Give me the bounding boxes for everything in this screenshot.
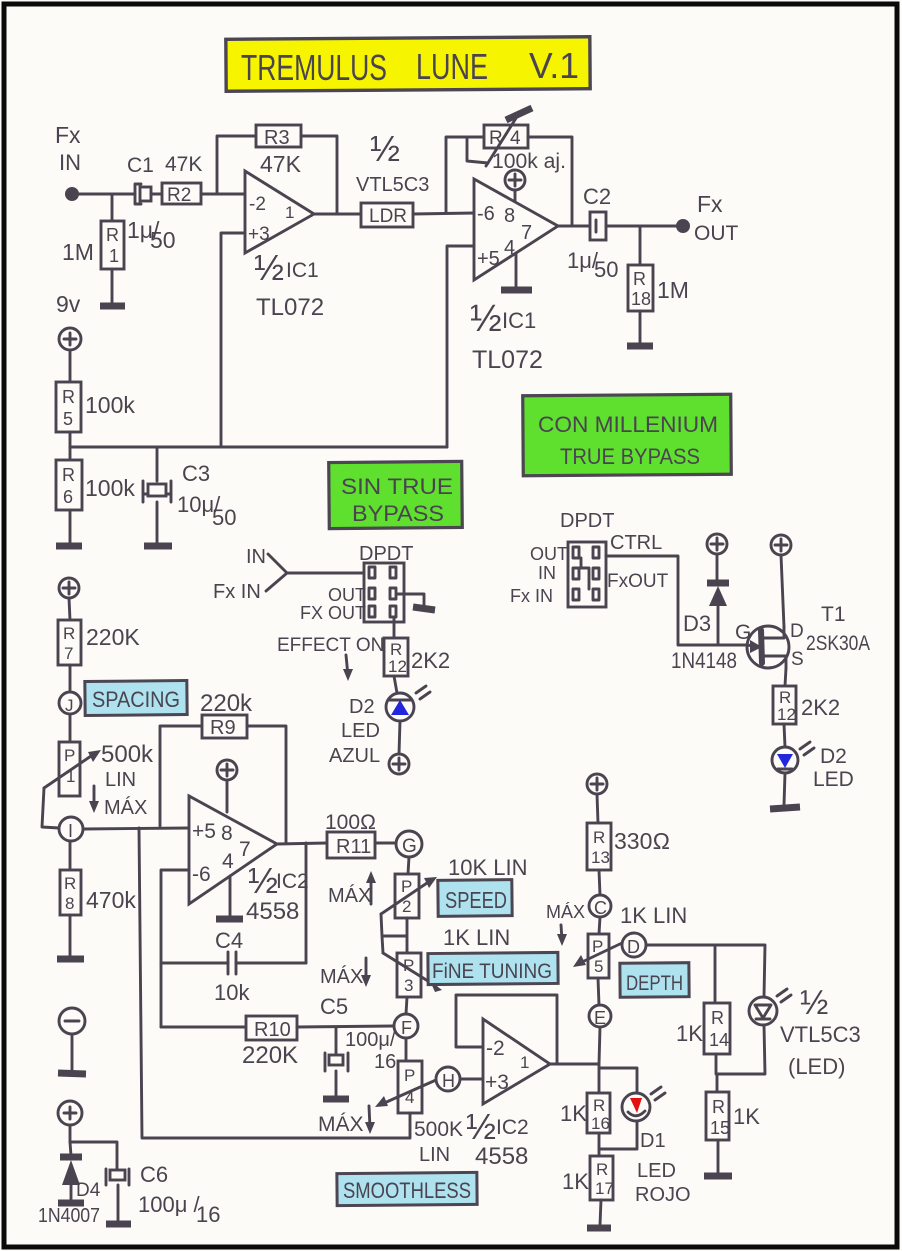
LED D2 azul (329, 686, 430, 767)
ground below R8 (57, 915, 84, 959)
wire IC2B output to node E leg (550, 1063, 599, 1066)
svg-text:3: 3 (404, 976, 413, 995)
svg-text:LIN: LIN (105, 769, 136, 791)
wire D2 to + (399, 721, 400, 754)
node G (396, 831, 422, 874)
wire op-amp out to LDR (314, 213, 361, 216)
svg-text:6: 6 (63, 487, 73, 507)
svg-text:MÁX: MÁX (104, 796, 147, 819)
svg-text:47K: 47K (260, 151, 302, 177)
svg-text:VTL5C3: VTL5C3 (356, 174, 429, 196)
svg-text:7: 7 (239, 838, 251, 861)
power + above R13 (587, 774, 607, 823)
svg-text:R11: R11 (336, 836, 371, 858)
wire C4 right leg up to output (305, 843, 308, 963)
wire IC2B feedback loop (456, 995, 557, 1064)
diode D3 1N4148 (671, 554, 737, 673)
wire DPDT ctrl to gate of T1 (606, 556, 748, 645)
switch DPDT (sin true bypass) (300, 543, 413, 623)
title box TREMULUS LUNE V.1 (226, 37, 590, 92)
wire +5 input of U1B down to vref rail (447, 246, 474, 447)
diode D4 1N4007 (38, 1142, 101, 1227)
node F (394, 1014, 418, 1061)
potentiometer P5 1K LIN (573, 903, 687, 1005)
svg-text:47K: 47K (165, 153, 202, 176)
power - symbol (58, 1008, 86, 1074)
svg-text:TL072: TL072 (472, 346, 543, 374)
svg-text:470k: 470k (86, 887, 136, 913)
svg-text:-6: -6 (192, 863, 211, 886)
svg-text:13: 13 (591, 848, 610, 867)
svg-text:R: R (64, 874, 76, 893)
resistor R2 (162, 183, 201, 206)
svg-text:E: E (594, 1008, 606, 1028)
label MAX down-arrow (P5) (546, 902, 585, 946)
svg-text:FiNE TUNING: FiNE TUNING (432, 960, 552, 983)
svg-text:1K: 1K (562, 1169, 589, 1194)
svg-text:G: G (735, 621, 751, 644)
svg-text:50: 50 (594, 257, 618, 282)
svg-text:BYPASS: BYPASS (352, 501, 444, 526)
ground below R18 (627, 311, 653, 346)
svg-text:10k: 10k (214, 980, 250, 1005)
svg-text:IC1: IC1 (502, 308, 536, 333)
svg-text:1N4007: 1N4007 (38, 1205, 100, 1227)
power + above D4 (58, 1101, 82, 1142)
power + above R7 (59, 578, 79, 620)
ground below IC2A (216, 876, 243, 919)
svg-text:16: 16 (374, 1051, 396, 1073)
svg-text:R: R (593, 828, 605, 847)
resistor R9 220k (160, 690, 286, 843)
ground below D2b (770, 773, 800, 809)
wire IN/FxIN to DPDT (266, 554, 364, 591)
svg-text:Fx: Fx (697, 191, 723, 217)
svg-text:D4: D4 (76, 1180, 101, 1201)
svg-text:2SK30A: 2SK30A (806, 632, 870, 655)
svg-text:4: 4 (222, 850, 234, 873)
wire R12 to D2 (394, 676, 397, 693)
svg-text:R2: R2 (167, 185, 191, 206)
svg-text:R: R (593, 1096, 605, 1115)
svg-text:(LED): (LED) (788, 1054, 845, 1079)
svg-text:DPDT: DPDT (560, 510, 614, 532)
power + above D3 (707, 534, 727, 554)
wire DPDT to R12 (393, 617, 396, 638)
svg-text:MÁX: MÁX (320, 965, 363, 988)
op-amp U1B (1/2 IC1 TL072) (470, 179, 558, 374)
ground below R6 (56, 510, 82, 546)
wire R12b to D2b (784, 724, 785, 747)
note box SIN TRUE BYPASS (329, 461, 463, 528)
svg-text:+5: +5 (477, 248, 500, 270)
svg-text:C5: C5 (320, 994, 348, 1019)
svg-text:FxOUT: FxOUT (607, 571, 669, 592)
resistor R6 (56, 460, 135, 510)
wire out to C2 (558, 225, 592, 228)
svg-text:J: J (65, 696, 74, 715)
svg-text:SIN TRUE: SIN TRUE (341, 474, 453, 499)
svg-text:MÁX: MÁX (546, 902, 585, 922)
svg-text:C3: C3 (182, 461, 210, 486)
svg-text:R: R (489, 128, 503, 149)
svg-text:C1: C1 (127, 154, 154, 177)
power + above IC2A (217, 760, 237, 812)
svg-text:+5: +5 (192, 820, 216, 843)
LED D1 rojo parallel branch (599, 1068, 691, 1206)
wire IC2A output (277, 843, 327, 844)
svg-text:VTL5C3: VTL5C3 (780, 1022, 861, 1047)
svg-text:8: 8 (65, 894, 74, 913)
svg-text:17: 17 (595, 1179, 614, 1198)
resistor R5 (56, 382, 135, 460)
wire C1 to R2 (151, 193, 162, 196)
label box SPEED (438, 880, 512, 917)
node C (589, 895, 611, 934)
wire P4 bottom loop to I node (139, 828, 410, 1138)
resistor R12 (2K2 led azul) (384, 638, 450, 676)
svg-text:-2: -2 (249, 194, 266, 215)
label EFFECT ON with arrow (277, 635, 384, 681)
potentiometer P1 500k LIN (42, 741, 154, 828)
wire R4 right leg to output (528, 137, 572, 226)
svg-text:1K: 1K (676, 1021, 703, 1046)
wire feedback junction up to R3 (217, 136, 256, 194)
svg-text:9v: 9v (56, 291, 81, 317)
svg-text:LIN: LIN (419, 1144, 450, 1166)
label box SPACING (85, 680, 187, 715)
potentiometer P4 500K LIN (375, 1061, 463, 1166)
capacitor C1 (127, 153, 202, 253)
node J (59, 692, 81, 742)
switch DPDT (millenium) (510, 510, 669, 607)
svg-text:50: 50 (150, 227, 176, 253)
svg-text:ROJO: ROJO (635, 1184, 691, 1206)
svg-text:DEPTH: DEPTH (626, 972, 683, 995)
svg-text:R: R (63, 624, 75, 643)
svg-text:Fx: Fx (55, 122, 81, 148)
svg-text:FX OUT: FX OUT (300, 603, 366, 623)
svg-text:100Ω: 100Ω (325, 811, 376, 834)
svg-text:IN: IN (59, 150, 81, 175)
svg-text:T1: T1 (821, 603, 846, 626)
svg-text:12: 12 (777, 705, 796, 724)
wire R3 to output (301, 136, 337, 214)
ground below C6 (106, 1185, 131, 1224)
resistor R10 (161, 1016, 394, 1069)
svg-text:R10: R10 (254, 1019, 291, 1041)
svg-text:220K: 220K (86, 624, 140, 650)
resistor R8 (60, 870, 136, 915)
svg-text:Fx IN: Fx IN (213, 581, 261, 603)
ground below C3 (144, 502, 172, 546)
svg-text:R: R (62, 465, 75, 485)
ground below IC1B (501, 253, 532, 290)
svg-text:OUT: OUT (530, 544, 568, 564)
node H (436, 1067, 483, 1091)
svg-text:IN: IN (538, 563, 556, 583)
potentiometer P2 10K LIN (381, 855, 528, 953)
svg-text:5: 5 (594, 957, 603, 976)
svg-text:100k aj.: 100k aj. (492, 150, 566, 173)
resistor R15 (706, 1092, 760, 1140)
potentiometer P3 1K LIN (383, 925, 510, 1014)
svg-text:12: 12 (388, 657, 407, 676)
resistor R13 330ohm (587, 823, 670, 895)
svg-text:500K: 500K (414, 1118, 463, 1141)
svg-text:2K2: 2K2 (801, 695, 840, 720)
op-amp U2A (1/2 IC2 4558) (189, 796, 309, 925)
svg-text:C2: C2 (583, 184, 611, 209)
svg-text:TRUE BYPASS: TRUE BYPASS (560, 444, 700, 469)
svg-text:220K: 220K (242, 1042, 298, 1069)
node Fx OUT dot (676, 191, 739, 245)
svg-text:16: 16 (591, 1114, 610, 1133)
ground below R1 (100, 269, 125, 306)
power + above IC1B (505, 170, 525, 203)
svg-text:1K LIN: 1K LIN (620, 903, 687, 928)
svg-text:OUT: OUT (694, 222, 739, 245)
svg-text:½: ½ (470, 298, 502, 340)
svg-text:V.1: V.1 (529, 45, 579, 86)
label MAX down-arrow (P4) (318, 1106, 375, 1136)
svg-text:D: D (790, 621, 804, 642)
node D (622, 933, 646, 957)
svg-text:½: ½ (800, 984, 828, 1022)
resistor R12 (2K2 led) (773, 686, 840, 724)
svg-text:½: ½ (466, 1106, 496, 1147)
svg-text:CTRL: CTRL (610, 532, 662, 554)
svg-text:G: G (402, 836, 417, 857)
svg-text:I: I (68, 821, 73, 841)
svg-text:1: 1 (520, 1053, 529, 1072)
svg-text:R: R (106, 225, 119, 245)
capacitor C5 (320, 994, 396, 1073)
svg-text:50: 50 (212, 505, 236, 530)
svg-text:R: R (711, 1008, 724, 1028)
svg-text:330Ω: 330Ω (614, 828, 670, 854)
resistor R7 (58, 620, 140, 692)
wire I to IC2A +5 (83, 828, 189, 829)
svg-text:100k: 100k (85, 475, 135, 501)
label box DEPTH (620, 963, 689, 998)
svg-text:15: 15 (710, 1118, 730, 1138)
svg-text:LUNE: LUNE (416, 46, 488, 87)
node IN / Fx IN labels (213, 546, 266, 603)
resistor R3 (256, 125, 302, 177)
trimmer R4 100k (467, 108, 566, 173)
svg-text:P: P (404, 1066, 415, 1085)
resistor R18 (628, 226, 689, 311)
ground below R15 (704, 1140, 732, 1176)
svg-text:D1: D1 (640, 1130, 666, 1152)
svg-text:-2: -2 (486, 1037, 505, 1060)
svg-text:DPDT: DPDT (359, 543, 413, 565)
svg-text:R9: R9 (210, 717, 236, 739)
label box SMOOTHLESS (337, 1172, 477, 1205)
svg-text:18: 18 (631, 289, 651, 309)
svg-text:14: 14 (709, 1030, 729, 1050)
svg-text:½: ½ (248, 860, 278, 901)
svg-text:500k: 500k (101, 741, 154, 768)
node E (589, 1005, 611, 1093)
svg-text:1M: 1M (62, 239, 94, 265)
svg-text:LED: LED (637, 1160, 676, 1182)
resistor R14 (676, 1003, 730, 1074)
resistor R1 (62, 194, 124, 269)
svg-text:SMOOTHLESS: SMOOTHLESS (343, 1178, 471, 1203)
svg-text:½: ½ (370, 128, 400, 169)
svg-text:C4: C4 (215, 928, 243, 953)
svg-text:R3: R3 (264, 127, 290, 149)
wire R4 feedback left leg (446, 137, 484, 213)
svg-text:1: 1 (109, 246, 119, 266)
svg-text:4: 4 (504, 237, 515, 259)
resistor R17 (562, 1156, 614, 1200)
power + above T1 drain (771, 535, 791, 627)
op-amp U1A (1/2 IC1 TL072) (245, 171, 324, 321)
ground below C5 (323, 1071, 349, 1099)
LDR of VTL5C3 (356, 128, 429, 227)
node input dot (65, 187, 79, 201)
svg-text:1N4148: 1N4148 (671, 648, 737, 673)
op-amp U2B (1/2 IC2 4558) (466, 1019, 550, 1170)
svg-text:LDR: LDR (369, 206, 407, 227)
svg-text:AZUL: AZUL (329, 745, 380, 767)
svg-text:1K LIN: 1K LIN (443, 925, 510, 950)
wire DPDT middle pole to ground (397, 594, 435, 610)
svg-text:1M: 1M (657, 277, 689, 303)
resistor R11 (325, 811, 396, 858)
svg-text:R: R (712, 1097, 725, 1117)
wire input to C1 (79, 193, 135, 196)
svg-text:IN: IN (246, 546, 266, 568)
svg-text:2K2: 2K2 (411, 648, 450, 673)
power + above R5 (59, 328, 81, 382)
svg-text:TREMULUS: TREMULUS (241, 47, 387, 88)
wire VTL LED bottom to R15 top (717, 1025, 765, 1092)
wire T1 source to R12b (785, 668, 786, 686)
svg-text:H: H (442, 1071, 455, 1091)
wire +3 input of U1A down to vref rail (221, 233, 245, 447)
label MAX down-arrow (P3) (320, 958, 371, 988)
svg-text:R: R (596, 1160, 608, 1179)
svg-text:LED: LED (813, 768, 854, 791)
label box FINE TUNING (428, 952, 558, 984)
svg-text:P: P (64, 746, 75, 765)
wire LDR to IC1B input (413, 213, 474, 214)
svg-text:R: R (62, 387, 75, 407)
svg-text:8: 8 (504, 205, 515, 227)
capacitor C3 (143, 447, 236, 530)
wire node D to R14 and VTL LED (646, 945, 765, 1003)
wire C2 to Fx OUT (606, 225, 683, 228)
svg-text:1K: 1K (733, 1104, 760, 1129)
svg-text:D2: D2 (820, 745, 847, 768)
svg-text:Fx IN: Fx IN (510, 586, 553, 606)
capacitor C2 (567, 184, 618, 282)
wire -6 loop (161, 870, 189, 1027)
wire R2 to op-amp (node -2) (201, 193, 245, 196)
svg-text:16: 16 (196, 1202, 220, 1227)
note box CON MILLENIUM TRUE BYPASS (523, 394, 732, 475)
svg-text:F: F (401, 1018, 412, 1038)
transistor T1 2SK30A (735, 603, 870, 670)
svg-text:CON MILLENIUM: CON MILLENIUM (538, 412, 718, 437)
capacitor C6 (106, 1162, 220, 1227)
svg-text:7: 7 (521, 222, 532, 244)
svg-text:IC2: IC2 (496, 1116, 529, 1139)
LED D2 (millenium) (772, 742, 854, 791)
svg-text:MÁX: MÁX (328, 884, 371, 907)
svg-text:100μ /: 100μ / (138, 1192, 200, 1217)
svg-text:IC2: IC2 (276, 870, 309, 893)
svg-text:4558: 4558 (475, 1143, 528, 1170)
svg-text:1K: 1K (560, 1101, 587, 1126)
svg-text:8: 8 (221, 822, 233, 845)
svg-text:IC1: IC1 (286, 259, 319, 282)
label MAX up-arrow (P2) (328, 871, 376, 907)
svg-text:R: R (633, 269, 646, 289)
svg-text:-6: -6 (477, 203, 495, 225)
capacitor C4 (161, 928, 306, 1005)
power + below D2 (389, 754, 409, 774)
wire vref rail (70, 446, 447, 449)
resistor R16 (560, 1093, 610, 1156)
svg-text:C6: C6 (140, 1162, 168, 1187)
svg-text:LED: LED (341, 720, 380, 742)
svg-text:220k: 220k (200, 690, 253, 717)
svg-text:SPEED: SPEED (445, 887, 507, 913)
LED half VTL5C3 (749, 984, 861, 1079)
svg-text:SPACING: SPACING (92, 687, 180, 712)
node Fx IN label (55, 122, 81, 175)
svg-text:D: D (627, 937, 640, 957)
svg-text:OUT: OUT (328, 585, 366, 605)
svg-text:5: 5 (63, 409, 73, 429)
svg-text:S: S (791, 649, 804, 670)
svg-text:½: ½ (254, 247, 284, 288)
node I (59, 817, 83, 870)
svg-text:4558: 4558 (246, 898, 299, 925)
svg-text:1: 1 (285, 203, 294, 222)
svg-text:TL072: TL072 (256, 294, 324, 321)
svg-text:100k: 100k (85, 392, 135, 418)
svg-text:4: 4 (510, 128, 521, 149)
svg-text:D2: D2 (349, 696, 375, 718)
svg-text:10K LIN: 10K LIN (448, 855, 528, 880)
wire + junction to C6 (70, 1142, 117, 1169)
svg-text:C: C (594, 898, 607, 918)
svg-text:D3: D3 (683, 611, 711, 636)
svg-text:100μ/: 100μ/ (345, 1029, 396, 1051)
ground below R17 (587, 1200, 611, 1228)
svg-text:+3: +3 (248, 224, 270, 245)
svg-text:EFFECT ON: EFFECT ON (277, 635, 384, 656)
svg-text:+3: +3 (485, 1071, 509, 1094)
svg-text:7: 7 (64, 644, 73, 663)
svg-text:MÁX: MÁX (318, 1113, 364, 1136)
